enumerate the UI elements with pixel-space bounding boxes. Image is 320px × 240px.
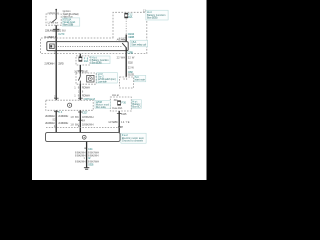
relay name teal box bbox=[130, 40, 147, 47]
pump motor circle bbox=[82, 135, 86, 139]
pump teal name box bbox=[121, 133, 146, 143]
svg-text:18 BK: 18 BK bbox=[70, 115, 79, 119]
BJB2 fuse box (dashed) bbox=[110, 97, 131, 111]
tick + teal on W1 bbox=[54, 111, 59, 113]
switch blade bbox=[52, 19, 57, 23]
svg-text:21 RD/WH: 21 RD/WH bbox=[58, 121, 68, 125]
ignition switch SW1 box (dashed) bbox=[46, 14, 61, 25]
svg-text:Ground to chassis: Ground to chassis bbox=[122, 138, 144, 142]
svg-text:A/C relay: A/C relay bbox=[117, 38, 127, 42]
svg-text:C437: C437 bbox=[118, 125, 124, 129]
wire into switch bbox=[55, 10, 57, 19]
svg-text:Box (BJB): Box (BJB) bbox=[92, 60, 102, 64]
wire W2 from fuse down bbox=[79, 65, 81, 73]
svg-text:C270: C270 bbox=[58, 32, 65, 36]
svg-text:C44: C44 bbox=[88, 147, 93, 151]
svg-text:30A: 30A bbox=[128, 15, 133, 19]
svg-text:C135: C135 bbox=[121, 112, 127, 116]
svg-text:19: 19 bbox=[74, 93, 80, 97]
fuse F30 symbol bbox=[118, 101, 121, 105]
svg-text:14 YE/BK: 14 YE/BK bbox=[108, 120, 118, 124]
wire W3b below BJB2 bbox=[118, 111, 120, 133]
wire W3 through contact bbox=[125, 47, 127, 53]
fuse holder box (dashed) bbox=[76, 56, 90, 65]
tick + C label bbox=[84, 147, 86, 149]
svg-text:Box (BJB): Box (BJB) bbox=[147, 15, 158, 19]
starter relay box (dashed) bbox=[120, 77, 134, 88]
motor circle bbox=[88, 77, 92, 81]
relay contact blade bbox=[122, 43, 126, 48]
tick2 + tag on W2 bbox=[78, 119, 83, 121]
wire W1 below SJB bbox=[55, 54, 57, 101]
wire stub into fuse holder bbox=[79, 54, 81, 57]
fuse F8 symbol bbox=[79, 57, 82, 61]
svg-text:Hot at: Hot at bbox=[112, 93, 119, 97]
pump teal name box bbox=[97, 73, 118, 83]
svg-text:LVVN sw: LVVN sw bbox=[48, 20, 59, 24]
svg-text:Fuse 30A: Fuse 30A bbox=[112, 106, 122, 110]
fuse holder teal name box bbox=[91, 56, 110, 64]
svg-text:Low side: Low side bbox=[98, 80, 108, 84]
relay K1 body (solid rounded rect) bbox=[47, 42, 128, 51]
svg-text:19: 19 bbox=[74, 85, 80, 89]
smart junction box SJB (L-shaped dashed outline) bbox=[41, 12, 147, 53]
svg-text:18 BK/WH: 18 BK/WH bbox=[82, 115, 94, 119]
splice circle S bbox=[68, 103, 72, 107]
wire W1 from switch down bbox=[55, 25, 57, 41]
svg-text:22 BU: 22 BU bbox=[58, 29, 66, 33]
ground symbol bbox=[84, 168, 89, 170]
svg-text:22 WH: 22 WH bbox=[117, 55, 126, 59]
svg-text:21 RD: 21 RD bbox=[58, 61, 64, 65]
switch blade in pump box bbox=[78, 73, 80, 84]
svg-text:C293 22 BU: C293 22 BU bbox=[48, 11, 59, 15]
LVVM module box 2 (dashed) bbox=[46, 100, 93, 110]
svg-text:Run/Start: Run/Start bbox=[44, 35, 53, 39]
svg-text:RD/WH: RD/WH bbox=[82, 93, 90, 97]
svg-text:F30: F30 bbox=[122, 101, 127, 105]
svg-text:Box (SJB): Box (SJB) bbox=[63, 22, 73, 26]
svg-text:22 W: 22 W bbox=[128, 65, 135, 69]
node B+ feed dot above switch bbox=[55, 9, 57, 11]
module teal name box bbox=[95, 100, 110, 108]
svg-text:14 YE: 14 YE bbox=[121, 120, 130, 124]
page background bbox=[0, 0, 240, 180]
pump switch box (dashed) bbox=[76, 73, 96, 84]
svg-text:S110: S110 bbox=[128, 60, 134, 64]
svg-text:Run relay: Run relay bbox=[96, 105, 107, 109]
wire W2 below pump box bbox=[79, 84, 81, 100]
svg-text:C4: C4 bbox=[58, 110, 63, 114]
BJB2 teal name box bbox=[132, 100, 142, 108]
label box teal: switch bbox=[62, 18, 80, 26]
svg-text:Box BJ: Box BJ bbox=[132, 104, 141, 108]
svg-text:C327: C327 bbox=[82, 111, 88, 115]
svg-text:start note: start note bbox=[135, 78, 146, 82]
svg-text:C1035: C1035 bbox=[128, 35, 135, 39]
svg-text:21 RD/WH: 21 RD/WH bbox=[45, 114, 55, 118]
tick on W2 bbox=[77, 70, 83, 72]
svg-text:RD/WH: RD/WH bbox=[82, 85, 90, 89]
wire W1 through relay bbox=[55, 42, 57, 54]
ground wire below pump bbox=[86, 142, 88, 168]
svg-text:22 BU/WH: 22 BU/WH bbox=[45, 29, 55, 33]
tick + teal connector on W2 bbox=[78, 97, 83, 99]
coil dot bbox=[50, 45, 52, 47]
svg-text:Start relay coil: Start relay coil bbox=[131, 43, 146, 47]
fuse F12 symbol in BJB top bbox=[125, 13, 128, 18]
wire W3 into relay bbox=[125, 35, 127, 44]
wire W3 below SJB bbox=[125, 54, 127, 77]
tick + label on W3b bbox=[117, 113, 122, 115]
svg-text:G305: G305 bbox=[88, 162, 94, 166]
motor M body bbox=[87, 75, 94, 82]
svg-text:21 RD/WH: 21 RD/WH bbox=[58, 114, 68, 118]
relay coil square bbox=[50, 44, 55, 49]
wire W2 below module bbox=[79, 110, 81, 133]
tick + teal on W2 bbox=[78, 111, 83, 113]
inline connector dashed line C437 bbox=[46, 127, 121, 129]
starter relay teal name box bbox=[134, 75, 146, 81]
relay internal dashed link bbox=[55, 45, 121, 47]
fuel pump unit box (solid) bbox=[46, 133, 121, 142]
svg-text:8 BK/WH: 8 BK/WH bbox=[75, 159, 86, 163]
svg-text:21 RD/WH: 21 RD/WH bbox=[44, 61, 54, 65]
svg-text:18 BK/WH: 18 BK/WH bbox=[82, 122, 94, 126]
connector C270 ticks on W1 bbox=[53, 29, 60, 31]
wire W3 dotted inside BJB bbox=[125, 18, 127, 34]
battery junction box label (teal box) bbox=[146, 10, 168, 20]
svg-text:S1035: S1035 bbox=[128, 73, 135, 77]
svg-text:22 W: 22 W bbox=[128, 55, 135, 59]
svg-text:20A: 20A bbox=[84, 59, 89, 63]
wire W1 below module bbox=[55, 110, 57, 133]
svg-text:30: 30 bbox=[123, 78, 128, 81]
svg-text:C175B: C175B bbox=[127, 50, 133, 54]
